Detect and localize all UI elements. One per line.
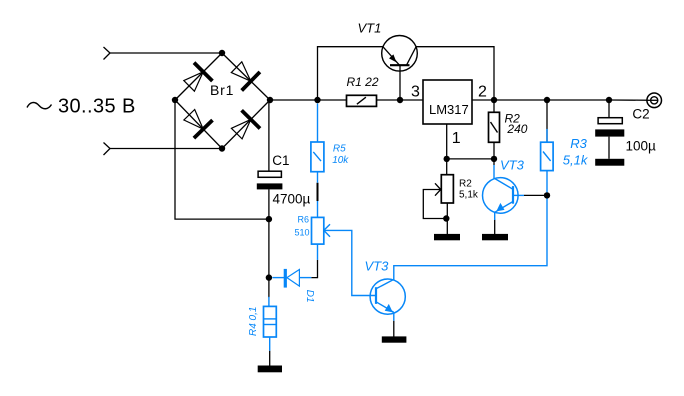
capacitor C2	[595, 118, 624, 137]
svg-text:4700µ: 4700µ	[273, 191, 311, 206]
wire R6 bottom lead	[317, 244, 319, 260]
capacitor C1	[257, 171, 283, 189]
svg-text:2: 2	[478, 84, 487, 101]
wire stub below adj node to VT3 collector	[493, 159, 495, 165]
svg-text:240: 240	[506, 122, 527, 136]
svg-text:R1 22: R1 22	[347, 75, 379, 89]
node rail R5	[314, 97, 320, 103]
ground under R4	[258, 366, 282, 373]
trimmer resistor R6	[312, 217, 331, 244]
wire R4 top lead	[268, 297, 270, 307]
diode D1	[272, 269, 311, 288]
wire bridge side top-left	[175, 53, 222, 100]
resistor R5	[311, 142, 324, 172]
wire R6 wiper to VT3 base	[324, 230, 376, 295]
transistor VT3 lower	[370, 279, 405, 321]
svg-text:5,1k: 5,1k	[563, 152, 589, 167]
wire bridge side top-right	[222, 53, 270, 100]
wire R1 right to LM317 pin3	[377, 99, 424, 101]
wire VT3 lower emitter to ground	[393, 321, 395, 337]
wire LM317 pin1 down	[446, 124, 448, 175]
output terminal	[647, 93, 662, 108]
input terminal top	[104, 47, 111, 60]
wire bottom input	[110, 148, 222, 150]
wire VT3 base to R3 node	[524, 194, 547, 196]
resistor R1	[347, 95, 377, 106]
wire C2 bottom lead to ground	[608, 137, 610, 159]
node rail VT1 base	[397, 97, 403, 103]
svg-text:R6: R6	[297, 215, 309, 225]
resistor R3	[541, 142, 554, 170]
wire R6 top lead	[317, 201, 319, 217]
wire adjust node horizontal	[447, 158, 494, 160]
svg-text:VT1: VT1	[358, 21, 382, 36]
trimmer resistor R2 5.1k	[435, 175, 453, 203]
wire top input	[110, 52, 222, 54]
ground under upper VT3	[482, 234, 508, 240]
wire riser to VT1 emitter	[318, 47, 383, 100]
wire bridge side bottom-left	[175, 100, 222, 149]
ground under trimmer R2	[434, 234, 460, 240]
diode Br1 bottom-left	[184, 110, 213, 139]
node pin1	[444, 156, 450, 162]
cyan circuitry	[264, 104, 554, 351]
svg-text:5,1k: 5,1k	[459, 189, 479, 200]
LM317 regulator U1	[423, 80, 472, 124]
node bridge left	[172, 97, 178, 103]
wire trimmer R2 wiper elbow	[423, 190, 446, 219]
node adj right	[491, 156, 497, 162]
wire R4 to ground	[269, 351, 271, 366]
wire R3 lower lead to VT3 collector	[394, 171, 547, 280]
ground under lower VT3	[382, 336, 407, 342]
wire R4 bottom lead	[269, 337, 271, 351]
transistor VT1	[382, 36, 418, 72]
wire LM317 pin2 to rail	[472, 99, 494, 101]
ground under C2	[595, 159, 624, 166]
node rail C2	[606, 97, 612, 103]
svg-text:510: 510	[294, 228, 309, 238]
wire main rail bridge to R1	[270, 99, 347, 101]
input terminal bottom	[104, 143, 111, 156]
svg-text:1: 1	[452, 130, 461, 147]
wire VT3 emitter to ground	[494, 220, 496, 235]
svg-text:R5: R5	[333, 143, 346, 154]
node rail R3	[544, 97, 550, 103]
node C1 bottom	[266, 216, 272, 222]
wire C1 bottom lead	[268, 189, 270, 219]
svg-text:30..35 В: 30..35 В	[58, 96, 136, 118]
diode Br1 top-left	[184, 63, 213, 92]
wire trimmer R2 bottom to ground	[446, 203, 448, 234]
svg-text:Br1: Br1	[210, 82, 234, 98]
wire negative drop from bridge left node	[175, 100, 269, 219]
wire R5 top lead	[317, 104, 319, 143]
node R3 base tap	[544, 192, 550, 198]
svg-text:R2: R2	[459, 179, 472, 190]
svg-text:VT3: VT3	[365, 259, 390, 274]
node bridge bottom	[219, 145, 225, 151]
resistor R2 240	[489, 112, 500, 142]
wire R5 bottom lead	[317, 172, 319, 183]
svg-text:100µ: 100µ	[626, 139, 657, 154]
diode Br1 top-right	[231, 62, 260, 91]
svg-text:10k: 10k	[332, 155, 349, 166]
wire R3 upper lead cyan	[546, 129, 548, 142]
wire rail pin2-node to R3 node	[494, 99, 547, 101]
svg-text:LM317: LM317	[429, 102, 469, 117]
svg-text:D1: D1	[304, 290, 315, 303]
wire rail R3 node to C2 node	[547, 99, 609, 101]
svg-text:R3: R3	[570, 136, 587, 151]
resistor R4	[264, 306, 277, 337]
wire black corner D1 to R6	[311, 260, 317, 278]
AC symbol tilde	[27, 103, 52, 109]
wire D1 node down (to R4)	[268, 278, 270, 298]
wire R2 bottom lead	[493, 142, 495, 159]
wire C1 top lead	[268, 100, 270, 171]
node D1	[266, 274, 272, 280]
transistor VT3 upper	[483, 165, 525, 220]
wire C2 top lead	[608, 100, 610, 118]
svg-text:C1: C1	[272, 153, 289, 168]
svg-text:C2: C2	[632, 106, 649, 121]
node trimmer bottom	[443, 215, 449, 221]
svg-text:VT3: VT3	[500, 158, 525, 173]
svg-text:R4 0,1: R4 0,1	[248, 307, 259, 336]
svg-text:3: 3	[411, 84, 420, 101]
wire bridge side bottom-right	[222, 100, 270, 149]
wire black segment between R5 and R6	[317, 183, 319, 201]
wire rail C2 node to output terminal	[609, 99, 658, 101]
node dots	[172, 50, 612, 281]
bridge rectifier Br1 diodes	[184, 62, 260, 139]
wire VT1 collector to output node	[416, 47, 494, 100]
diode Br1 bottom-right	[231, 110, 260, 139]
wire R3 top lead	[546, 100, 548, 142]
wire VT1 base riser	[399, 65, 401, 100]
node bridge top	[219, 50, 225, 56]
wire R2 top lead	[493, 100, 495, 112]
wire negative rail down to D1 node	[268, 219, 270, 278]
node rail pin2	[491, 97, 497, 103]
node bridge right	[267, 97, 273, 103]
